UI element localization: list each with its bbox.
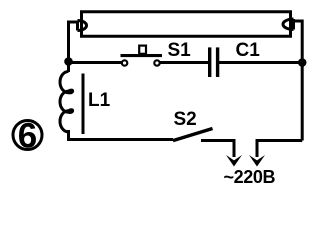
- junction dot (right, node between lamp, C1 row and supply): [298, 58, 307, 67]
- capacitor C1 left plate: [208, 47, 211, 77]
- wire: middle horizontal, between button and capacitor: [160, 61, 208, 64]
- svg-text:6: 6: [18, 117, 37, 156]
- inductor L1 core bar: [82, 74, 85, 135]
- svg-text:L1: L1: [88, 90, 111, 111]
- fluorescent lamp tube body: [82, 12, 291, 37]
- figure number badge circle: [13, 121, 42, 150]
- arrowhead right supply lead: [249, 155, 265, 167]
- svg-text:~220В: ~220В: [224, 167, 276, 187]
- lamp filament electrode (right): [283, 19, 294, 30]
- inductor L1 coil: [60, 72, 73, 132]
- wire: top-left stub and left vertical drop: [69, 22, 79, 72]
- lamp filament electrode (left): [78, 21, 87, 31]
- pushbutton S1 left terminal: [122, 60, 127, 65]
- wire: S2 fixed contact to left supply arrow corner: [201, 141, 234, 158]
- pushbutton S1 actuator button: [139, 46, 146, 54]
- svg-text:C1: C1: [236, 40, 261, 61]
- pushbutton S1 right terminal: [154, 60, 159, 65]
- capacitor C1 right plate: [216, 47, 219, 77]
- wire: middle horizontal, left segment: [69, 61, 122, 64]
- wire: coil bottom to corner and bottom-left horizontal: [69, 130, 174, 140]
- svg-text:S2: S2: [174, 109, 197, 130]
- wire: middle horizontal, right of capacitor: [219, 61, 302, 64]
- arrowhead left supply lead: [226, 155, 242, 167]
- svg-text:S1: S1: [168, 40, 192, 61]
- junction dot (left, node between lamp, L1 and button row): [64, 57, 73, 66]
- wire: bottom-right horizontal to right supply arrow: [257, 141, 302, 158]
- switch S2 blade: [173, 129, 213, 141]
- wire: top-right stub and right vertical down to bottom: [293, 21, 302, 141]
- pushbutton S1 bridge bar: [121, 54, 163, 57]
